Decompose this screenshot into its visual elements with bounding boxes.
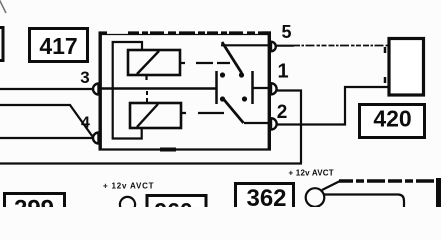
switch blade upper	[222, 42, 242, 73]
connector 960	[147, 196, 206, 225]
svg-text:420: 420	[373, 106, 411, 132]
dashed link coil1-coil2	[146, 91, 148, 103]
dashed link coil 2 to switch	[181, 112, 226, 114]
wire (upper branch to terminal 4)	[0, 105, 93, 137]
wire (terminal 2 to connector)	[277, 87, 388, 125]
svg-text:+ 12v AVCT: + 12v AVCT	[289, 169, 334, 178]
dashed link coil 1 to switch	[180, 62, 231, 64]
wire (terminal 2 internal)	[244, 122, 269, 124]
contact dots	[220, 72, 247, 101]
terminal 2	[271, 118, 277, 129]
connector 417	[30, 29, 88, 62]
+12v feed dashed wire	[339, 179, 438, 183]
wire (terminal 4 external)	[0, 137, 93, 139]
wire (terminal 1 internal)	[253, 87, 270, 89]
wire (terminal 1 down to bus)	[277, 91, 301, 164]
wire (coil 1 feed loop)	[113, 42, 142, 88]
connector (tall, top right)	[389, 39, 424, 96]
trim mark (right edge)	[436, 178, 441, 207]
wire (terminal 5 to connector, scratchy)	[276, 45, 294, 47]
wire (coil 2 feed loop)	[113, 89, 142, 139]
svg-text:2: 2	[277, 102, 288, 123]
svg-text:5: 5	[281, 22, 291, 42]
wire (ignition blade)	[322, 181, 340, 190]
wire (terminal 3 internal bus)	[99, 87, 217, 90]
ignition feed circle (right)	[306, 188, 325, 207]
svg-text:3: 3	[80, 68, 89, 87]
wire (terminal 3 external)	[0, 88, 93, 90]
svg-text:+ 12v AVCT: + 12v AVCT	[103, 182, 154, 191]
contact bar right	[251, 71, 254, 104]
svg-text:960: 960	[154, 198, 192, 207]
wire (terminal 5 internal)	[221, 44, 269, 46]
relay assembly box	[99, 33, 272, 150]
terminal 5	[271, 42, 276, 52]
contact bar left	[215, 71, 218, 104]
terminal 3	[93, 84, 98, 95]
ignition feed circle (left)	[120, 197, 135, 212]
connector (partial, left edge)	[0, 28, 3, 61]
switch blade lower	[223, 99, 244, 124]
terminal 1	[271, 83, 277, 94]
svg-text:417: 417	[39, 33, 77, 59]
svg-text:299: 299	[14, 196, 54, 208]
relay coil 1	[128, 50, 180, 75]
svg-text:362: 362	[246, 185, 286, 207]
connector 362	[236, 184, 294, 213]
bus wire (bottom horizontal)	[0, 162, 302, 164]
terminal 4	[93, 133, 98, 144]
connector 299	[5, 194, 65, 224]
connector 420	[360, 105, 425, 138]
relay coil 2	[130, 103, 181, 128]
wire (from ignition circle right)	[325, 195, 405, 208]
wire (top-left diagonal fragment)	[0, 0, 6, 13]
svg-text:1: 1	[277, 61, 288, 83]
coil 1 armature stub	[145, 75, 147, 80]
